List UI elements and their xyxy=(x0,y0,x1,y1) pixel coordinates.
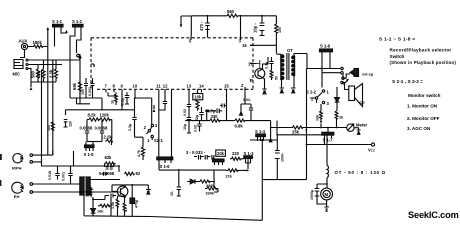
svg-text:22μ: 22μ xyxy=(195,115,199,121)
svg-text:3: 3 xyxy=(327,101,330,106)
svg-text:2: 2 xyxy=(144,125,147,130)
svg-text:560: 560 xyxy=(31,70,36,78)
svg-text:15: 15 xyxy=(224,84,229,89)
svg-text:8: 8 xyxy=(113,84,116,89)
svg-text:10k: 10k xyxy=(316,115,320,121)
svg-text:S 1-4: S 1-4 xyxy=(255,129,266,134)
svg-text:1000μ: 1000μ xyxy=(310,190,314,200)
svg-text:Switch: Switch xyxy=(390,54,405,59)
svg-text:S 1-5: S 1-5 xyxy=(84,152,95,157)
svg-text:Meter: Meter xyxy=(356,123,368,128)
svg-text:6: 6 xyxy=(93,63,96,68)
svg-text:2: 2 xyxy=(311,97,314,102)
svg-text:≈: ≈ xyxy=(305,129,307,133)
svg-text:M: M xyxy=(325,192,329,197)
svg-text:1k: 1k xyxy=(339,116,344,120)
svg-text:1.5k: 1.5k xyxy=(111,202,115,209)
svg-text:3 - 0.033 -: 3 - 0.033 - xyxy=(186,150,206,155)
svg-text:9: 9 xyxy=(121,84,124,89)
svg-text:EH: EH xyxy=(14,194,20,199)
svg-text:ext-sp: ext-sp xyxy=(362,73,374,77)
svg-text:R/PH: R/PH xyxy=(12,166,22,171)
svg-text:3.3k: 3.3k xyxy=(86,190,90,197)
svg-text:10k: 10k xyxy=(36,70,41,78)
svg-text:4.7k: 4.7k xyxy=(137,150,141,157)
svg-text:10k: 10k xyxy=(194,95,202,100)
svg-text:S 1-1 ~ S 1-8 =: S 1-1 ~ S 1-8 = xyxy=(379,37,415,43)
svg-text:1000-: 1000- xyxy=(281,152,285,162)
svg-text:25k: 25k xyxy=(292,130,300,135)
svg-text:17: 17 xyxy=(248,62,253,67)
svg-text:16: 16 xyxy=(242,43,247,48)
svg-text:SP: SP xyxy=(359,101,365,106)
svg-text:13: 13 xyxy=(187,84,192,89)
svg-text:3: 3 xyxy=(155,123,158,128)
svg-text:4.7: 4.7 xyxy=(124,207,128,212)
svg-text:330k: 330k xyxy=(206,192,215,196)
svg-text:S 1-7: S 1-7 xyxy=(323,138,334,143)
svg-text:VCC: VCC xyxy=(368,148,376,153)
svg-text:560: 560 xyxy=(227,9,235,14)
svg-text:M/C: M/C xyxy=(13,72,21,77)
svg-text:2.2μ: 2.2μ xyxy=(121,98,125,105)
svg-text:0.001: 0.001 xyxy=(62,172,66,181)
svg-text:10k: 10k xyxy=(97,210,104,214)
svg-text:0.0068: 0.0068 xyxy=(95,126,108,131)
svg-text:20k: 20k xyxy=(217,151,225,156)
svg-text:100: 100 xyxy=(278,27,282,33)
svg-text:10-: 10- xyxy=(170,190,174,196)
svg-text:470μ: 470μ xyxy=(135,200,139,208)
svg-text:S 2-1 , S 2-2 =: S 2-1 , S 2-2 = xyxy=(392,79,423,85)
svg-text:0.02-: 0.02- xyxy=(243,98,252,102)
svg-text:2.2k: 2.2k xyxy=(104,135,113,140)
svg-text:OT: OT xyxy=(287,48,293,53)
svg-text:50: 50 xyxy=(275,76,279,80)
svg-text:10μ: 10μ xyxy=(183,124,187,130)
svg-text:120k: 120k xyxy=(100,113,110,118)
svg-text:0.001: 0.001 xyxy=(88,87,92,96)
svg-text:0.00068: 0.00068 xyxy=(99,171,115,176)
svg-text:68k: 68k xyxy=(72,82,77,90)
svg-text:100: 100 xyxy=(47,125,51,131)
svg-text:1. Monitor ON: 1. Monitor ON xyxy=(407,104,438,109)
svg-text:S2-1: S2-1 xyxy=(154,138,164,143)
svg-text:100: 100 xyxy=(81,89,85,95)
svg-text:330: 330 xyxy=(211,114,219,119)
svg-text:S 1-6: S 1-6 xyxy=(160,164,171,169)
svg-text:0.02: 0.02 xyxy=(194,125,198,132)
svg-text:2: 2 xyxy=(241,83,244,88)
svg-text:6.8k: 6.8k xyxy=(235,124,244,129)
svg-text:0.1μ: 0.1μ xyxy=(265,62,269,69)
svg-text:3.3k: 3.3k xyxy=(49,69,54,78)
svg-text:S 1-8: S 1-8 xyxy=(320,44,331,49)
svg-text:10: 10 xyxy=(133,84,138,89)
svg-text:1k: 1k xyxy=(111,100,115,104)
svg-text:S 2-2: S 2-2 xyxy=(306,90,317,95)
svg-text:180k: 180k xyxy=(33,40,43,45)
svg-text:AUX: AUX xyxy=(19,39,28,44)
svg-text:11: 11 xyxy=(156,84,161,89)
svg-text:470 -: 470 - xyxy=(199,21,204,31)
svg-text:0.018: 0.018 xyxy=(48,171,52,180)
svg-text:SeekIC.com: SeekIC.com xyxy=(408,210,459,220)
svg-text:10μ -: 10μ - xyxy=(253,23,258,33)
svg-text:82k: 82k xyxy=(105,155,113,160)
svg-text:220: 220 xyxy=(232,151,240,156)
svg-text:3.3μ: 3.3μ xyxy=(128,124,132,131)
svg-text:4.7μ: 4.7μ xyxy=(207,109,216,114)
svg-text:120: 120 xyxy=(69,121,73,127)
svg-text:14: 14 xyxy=(199,84,204,89)
svg-text:(Shown in Playback position): (Shown in Playback position) xyxy=(390,60,457,65)
svg-text:S 1-1: S 1-1 xyxy=(52,19,63,24)
svg-text:3. AGC ON: 3. AGC ON xyxy=(407,126,431,131)
svg-text:OT - 50 : 8 : 130 Ω: OT - 50 : 8 : 130 Ω xyxy=(335,170,386,175)
svg-text:330k: 330k xyxy=(206,184,215,188)
svg-text:12: 12 xyxy=(163,84,168,89)
svg-text:7: 7 xyxy=(105,84,108,89)
svg-text:S 1-3: S 1-3 xyxy=(244,151,255,156)
svg-text:2. Monitor OFF: 2. Monitor OFF xyxy=(407,116,440,121)
svg-text:82: 82 xyxy=(136,171,141,176)
svg-text:8.2k: 8.2k xyxy=(88,113,97,118)
svg-text:1: 1 xyxy=(327,90,330,95)
svg-text:1: 1 xyxy=(147,138,150,143)
svg-text:0.02: 0.02 xyxy=(183,109,187,116)
svg-text:0.0068: 0.0068 xyxy=(80,126,93,131)
svg-text:Monitor switch: Monitor switch xyxy=(408,93,441,98)
svg-text:S 1-2: S 1-2 xyxy=(72,19,83,24)
svg-text:22k: 22k xyxy=(226,175,233,179)
svg-text:Record/Playback selector: Record/Playback selector xyxy=(390,48,452,53)
